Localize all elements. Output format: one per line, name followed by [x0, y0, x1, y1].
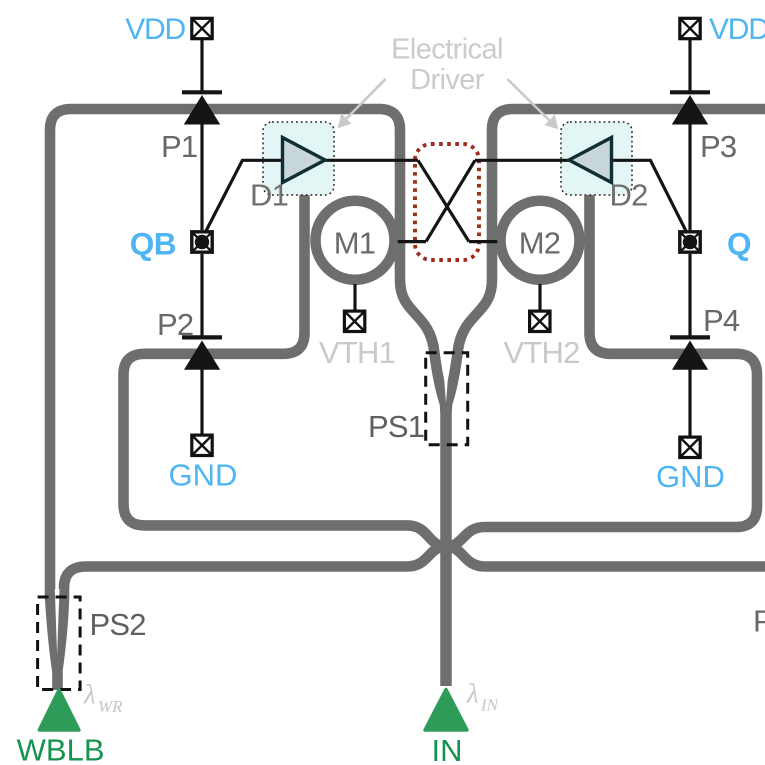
- electrical cross-coupling red dotted box: [415, 144, 479, 260]
- wire M2 to VTH2: [538, 284, 541, 310]
- wire cross diagonal D1 to M2: [418, 160, 469, 241]
- wire cross box to M1 heater: [398, 240, 426, 243]
- port WBLB grating coupler triangle: [39, 690, 79, 730]
- annotation arrow to D2: [507, 79, 557, 129]
- terminal GND right crossed box: [680, 437, 700, 457]
- wire P3 to Q: [688, 124, 691, 230]
- svg-text:PS3: PS3: [753, 604, 765, 639]
- svg-text:Electrical: Electrical: [391, 34, 503, 66]
- terminal GND left crossed box: [192, 435, 212, 455]
- annotation arrow to D1: [339, 79, 386, 128]
- wire D2 output to cross box: [475, 159, 569, 162]
- wire Q to D2 input: [611, 160, 686, 231]
- driver D1 buffer triangle: [283, 138, 326, 183]
- svg-text:M2: M2: [519, 226, 560, 261]
- wire P1 to QB: [200, 124, 203, 230]
- svg-text:GND: GND: [656, 459, 725, 494]
- wire P2 to GND-left: [200, 369, 203, 434]
- svg-text:VTH2: VTH2: [503, 335, 579, 370]
- svg-text:λ: λ: [83, 680, 96, 710]
- port IN grating coupler triangle: [425, 690, 467, 731]
- photodiode P1 cathode bar: [182, 90, 222, 94]
- label lambda WR: [83, 680, 123, 717]
- svg-text:IN: IN: [480, 696, 500, 715]
- svg-text:P1: P1: [161, 129, 197, 164]
- photodiode P4 triangle: [672, 341, 708, 370]
- waveguide: PS2 merge white notch: [55, 589, 60, 655]
- photodiode P3 triangle: [672, 95, 708, 125]
- terminal VTH2 crossed box: [530, 311, 550, 331]
- wire QB to D1 input: [206, 160, 284, 231]
- wire cross box to M2 heater: [469, 240, 497, 243]
- microring M1: [316, 201, 395, 280]
- wire cross diagonal D2 to M1: [426, 160, 475, 241]
- waveguide: PS1 merged output down through crossing to IN port: [440, 400, 452, 686]
- svg-text:WR: WR: [98, 697, 123, 716]
- label lambda IN: [466, 679, 500, 715]
- node QB contact box: [192, 232, 212, 252]
- svg-text:λ: λ: [466, 679, 479, 709]
- phase shifter PS2 dashed box: [38, 597, 81, 690]
- waveguide: D1 stub, rail through P2, left inner vertical, y=525 rail, crossing to lower-right edge: [124, 197, 765, 567]
- wire Q to P4: [688, 254, 691, 337]
- svg-text:M1: M1: [334, 226, 375, 261]
- waveguide: PS1 merge white notch: [443, 368, 448, 403]
- svg-text:VTH1: VTH1: [319, 335, 395, 370]
- svg-text:D1: D1: [250, 178, 288, 213]
- svg-text:VDD: VDD: [709, 13, 765, 46]
- waveguide: outer-left rail, top-left rail, vertical V1 into PS1 left input, PS2 left input: [50, 109, 446, 690]
- svg-text:PS1: PS1: [368, 409, 424, 444]
- terminal VDD right crossed box: [680, 18, 700, 38]
- phase shifter PS1 dashed box: [426, 353, 468, 445]
- svg-text:WBLB: WBLB: [17, 733, 105, 765]
- svg-text:D2: D2: [610, 178, 648, 213]
- svg-text:P3: P3: [700, 129, 736, 164]
- svg-text:Q: Q: [727, 226, 752, 262]
- svg-text:Driver: Driver: [410, 64, 485, 96]
- svg-text:PS2: PS2: [90, 607, 146, 642]
- terminal VTH1 crossed box: [344, 311, 364, 331]
- node Q contact box: [680, 232, 700, 252]
- svg-text:QB: QB: [130, 226, 176, 262]
- wire D1 output to cross box: [325, 159, 418, 162]
- svg-text:P2: P2: [157, 307, 193, 342]
- waveguide: D2 stub, rail through P4, right vertical, y=527 rail, crossing to lower-left, PS2 right input: [58, 197, 758, 670]
- photodiode P1 triangle: [184, 95, 220, 125]
- photodiode P2 cathode bar: [182, 335, 222, 339]
- waveguide: top-right rail from edge, vertical V2 into PS1 right input: [447, 109, 765, 412]
- wire QB to P2: [200, 254, 203, 337]
- driver D1 box: [263, 122, 334, 195]
- driver D2 box: [561, 122, 632, 195]
- wire M1 to VTH1: [353, 284, 356, 310]
- wire VDD-left to P1: [200, 39, 203, 91]
- svg-text:P4: P4: [703, 303, 740, 338]
- wire P4 to GND-right: [688, 369, 691, 436]
- wire VDD-right to P3: [688, 39, 691, 91]
- photodiode P2 triangle: [184, 341, 220, 370]
- microring M2: [501, 201, 580, 280]
- photodiode P3 cathode bar: [670, 90, 710, 94]
- svg-text:IN: IN: [432, 733, 463, 765]
- svg-text:VDD: VDD: [125, 13, 185, 46]
- photodiode P4 cathode bar: [670, 335, 710, 339]
- driver D2 buffer triangle: [569, 138, 612, 183]
- svg-text:GND: GND: [169, 458, 238, 493]
- terminal VDD left crossed box: [192, 18, 212, 38]
